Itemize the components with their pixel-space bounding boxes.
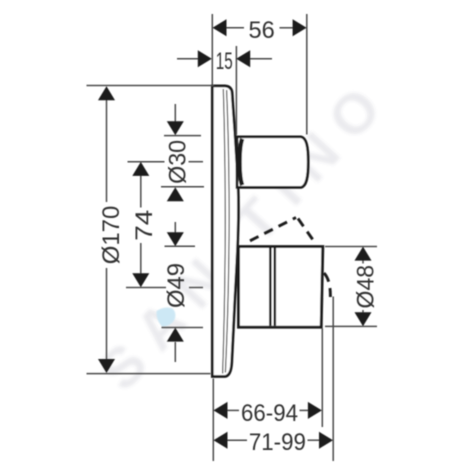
- dim 66-94 right seg: [300, 409, 310, 411]
- arrow O48 top: [355, 247, 372, 261]
- dim 71-99 left seg: [226, 439, 247, 441]
- arrow O48 bottom: [355, 312, 372, 326]
- extension line bottom x=213: [212, 379, 214, 462]
- thermostat knob cylinder: [237, 137, 308, 188]
- dim O49 bottom tail: [174, 342, 176, 362]
- dim O170 line upper: [106, 88, 108, 202]
- arrow O49 top: [167, 232, 184, 246]
- svg-text:74: 74: [131, 210, 158, 241]
- tick y=327.5: [162, 327, 204, 329]
- dim 15 right tail: [249, 58, 272, 60]
- svg-text:71-99: 71-99: [249, 429, 306, 456]
- tick right y=326.4: [325, 325, 377, 327]
- extension line x=307: [306, 14, 308, 135]
- dim O170 line lower: [106, 268, 108, 371]
- dim 74 line lower: [140, 243, 142, 286]
- tick y=161.7 right: [189, 161, 204, 163]
- watermark blue drop: [156, 307, 175, 327]
- dashed rotated handle outline left: [250, 218, 296, 241]
- arrow 56 left: [213, 19, 227, 36]
- dim O48 line lower: [362, 310, 364, 325]
- arrow O30 top: [167, 121, 184, 135]
- arrow 66-94 right: [308, 402, 322, 419]
- extension line x=236: [235, 46, 237, 135]
- tick y=287.5 left: [126, 287, 166, 289]
- dim 56 line left seg: [225, 27, 244, 29]
- extension line bottom x=333: [332, 297, 334, 462]
- tick y=287.5 right: [189, 287, 203, 289]
- svg-text:Ø30: Ø30: [165, 140, 192, 184]
- handle divider line 2: [273, 248, 276, 326]
- dim O30 top tail: [174, 104, 176, 134]
- plate highlight line 2: [225, 90, 229, 373]
- arrow 56 right: [293, 19, 307, 36]
- dashed rotated handle outline right: [298, 219, 315, 243]
- svg-text:Ø170: Ø170: [98, 206, 125, 265]
- dashed rotation arc: [324, 273, 330, 297]
- svg-text:15: 15: [216, 48, 233, 75]
- handle divider line 1: [269, 248, 272, 326]
- dim 56 line right seg: [280, 27, 295, 29]
- dim 15 left tail: [177, 58, 199, 60]
- tick right y=246.5: [325, 246, 377, 248]
- thermostat knob left end cap: [240, 139, 243, 185]
- arrow 74 bottom: [132, 273, 149, 287]
- extension line bottom horizontal y=373.6: [87, 373, 211, 375]
- svg-text:66-94: 66-94: [241, 400, 298, 427]
- lever handle body: [239, 247, 323, 328]
- dim 74 line upper: [140, 164, 142, 208]
- extension line bottom x=322: [321, 329, 323, 428]
- tick y=246.3: [165, 245, 196, 247]
- svg-text:Ø49: Ø49: [163, 263, 190, 308]
- dim 71-99 right seg: [308, 439, 320, 441]
- svg-text:Ø48: Ø48: [353, 265, 380, 309]
- tick y=135.6: [164, 135, 201, 137]
- arrow 71-99 right: [319, 432, 333, 449]
- dim O49 top tail: [174, 222, 176, 245]
- arrow O170 bottom: [98, 359, 115, 373]
- arrow 71-99 left: [214, 432, 228, 449]
- tick y=186.8: [161, 186, 204, 188]
- arrow 15 left: [198, 50, 212, 67]
- arrow O30 bottom: [167, 187, 184, 201]
- tick y=161.7 left: [128, 161, 165, 163]
- svg-text:56: 56: [248, 17, 274, 44]
- dim 66-94 left seg: [226, 409, 239, 411]
- arrow 15 right: [236, 50, 250, 67]
- escutcheon plate (side view): [212, 86, 238, 377]
- arrow 66-94 left: [214, 402, 228, 419]
- extension line left vertical top (x=212): [211, 14, 213, 85]
- plate highlight line 1: [223, 89, 226, 374]
- arrow 74 top: [132, 162, 149, 176]
- dim O48 line upper: [362, 248, 364, 264]
- arrow O49 bottom: [167, 328, 184, 342]
- arrow O170 top: [98, 86, 115, 100]
- watermark SANITINO: [87, 76, 393, 403]
- extension line top horizontal y=85.5: [87, 85, 215, 87]
